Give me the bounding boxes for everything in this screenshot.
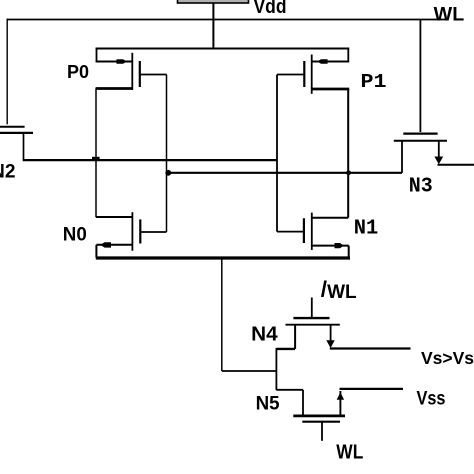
wire Vdd rail	[96, 48, 350, 50]
svg-text:Vs>Vss: Vs>Vss	[421, 348, 474, 368]
svg-text:Vdd: Vdd	[254, 0, 287, 18]
svg-text:P0: P0	[67, 62, 89, 82]
wire Vdd stub	[212, 3, 214, 49]
wire right gate net vertical	[276, 75, 278, 232]
svg-text:WL: WL	[336, 441, 363, 463]
transistor N3 (right access)	[394, 20, 474, 173]
svg-text:WL: WL	[434, 3, 465, 25]
wire WL top horizontal	[7, 19, 448, 21]
svg-text:P1: P1	[361, 71, 387, 93]
wire node Qb vertical (P1/N1 drains)	[347, 89, 349, 218]
svg-text:Vss: Vss	[417, 389, 446, 410]
wire node Q vertical (P0/N0 drains)	[95, 89, 97, 218]
svg-text:N1: N1	[354, 217, 379, 240]
junction node Qb	[346, 170, 351, 175]
svg-text:N5: N5	[256, 393, 280, 414]
wire N2 gate lead vertical	[6, 19, 8, 125]
svg-text:N0: N0	[63, 224, 87, 245]
wire Vss rail (bottom)	[96, 256, 350, 259]
wire Vs output	[330, 347, 411, 349]
wire Vss rail to N4/N5 node	[221, 258, 223, 371]
wire Vss output	[340, 388, 404, 390]
transistor N1	[277, 213, 349, 258]
svg-text:N4: N4	[251, 323, 278, 345]
svg-text:N3: N3	[409, 175, 433, 198]
transistor N4	[276, 298, 339, 349]
wire left gate net vertical	[166, 75, 168, 233]
transistor P0	[96, 48, 167, 90]
transistor N5	[276, 390, 345, 441]
junction node Q	[92, 157, 100, 161]
transistor P1	[277, 48, 349, 94]
junction left gate net	[165, 170, 171, 176]
svg-text:N2: N2	[0, 161, 16, 182]
wire cross-couple node Q horizontal	[23, 159, 277, 161]
wire cross-couple node Qb horizontal	[167, 172, 402, 174]
transistor N0	[96, 212, 167, 257]
transistor N2 (left access, partially off-canvas)	[0, 127, 33, 160]
Vdd supply bar	[178, 0, 249, 3]
